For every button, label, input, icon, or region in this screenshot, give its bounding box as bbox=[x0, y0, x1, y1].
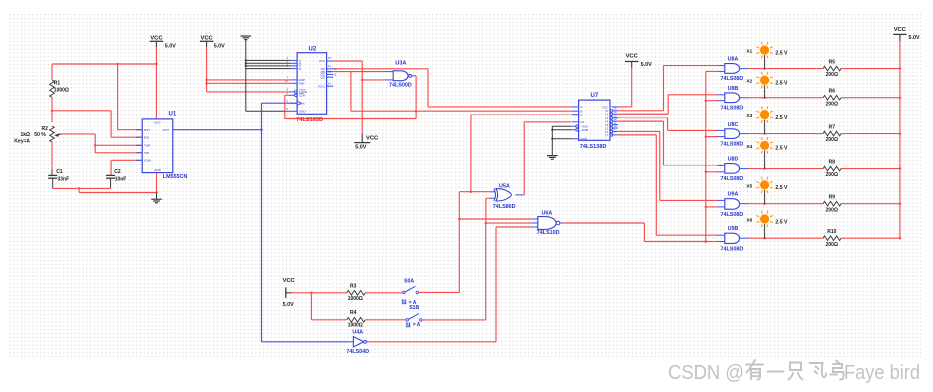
svg-text:X6: X6 bbox=[746, 217, 752, 223]
svg-text:R7: R7 bbox=[829, 125, 836, 131]
svg-text:VCC: VCC bbox=[283, 278, 296, 284]
svg-text:1kΩ: 1kΩ bbox=[21, 132, 31, 138]
svg-text:R9: R9 bbox=[829, 195, 836, 201]
svg-text:R1: R1 bbox=[54, 81, 61, 87]
svg-text:R3: R3 bbox=[350, 284, 357, 290]
svg-text:5.0V: 5.0V bbox=[214, 44, 225, 50]
svg-text:1000Ω: 1000Ω bbox=[348, 323, 363, 329]
svg-text:2.5 V: 2.5 V bbox=[775, 146, 788, 152]
svg-text:X5: X5 bbox=[746, 183, 752, 189]
svg-text:R10: R10 bbox=[827, 229, 836, 235]
svg-text:U9B: U9B bbox=[728, 226, 739, 232]
svg-text:DIS: DIS bbox=[144, 135, 149, 139]
svg-text:R2: R2 bbox=[42, 126, 49, 132]
svg-text:Key=A: Key=A bbox=[14, 138, 30, 144]
svg-text:74LS163D: 74LS163D bbox=[296, 117, 323, 123]
svg-text:200Ω: 200Ω bbox=[826, 242, 838, 248]
svg-text:50 %: 50 % bbox=[34, 132, 46, 138]
svg-text:VCC: VCC bbox=[154, 121, 161, 125]
svg-text:200Ω: 200Ω bbox=[826, 172, 838, 178]
svg-text:OUT: OUT bbox=[163, 128, 170, 132]
svg-text:74LS08D: 74LS08D bbox=[721, 141, 744, 147]
svg-text:74LS08D: 74LS08D bbox=[721, 246, 744, 252]
svg-text:2.5 V: 2.5 V bbox=[775, 50, 788, 56]
svg-text:GND: GND bbox=[154, 168, 162, 172]
svg-text:U8D: U8D bbox=[728, 157, 739, 163]
svg-text:U3A: U3A bbox=[395, 60, 406, 66]
svg-text:74LS00D: 74LS00D bbox=[389, 83, 412, 89]
svg-text:CLR: CLR bbox=[299, 94, 305, 98]
svg-text:QD: QD bbox=[320, 75, 324, 79]
svg-text:U6A: U6A bbox=[542, 211, 553, 217]
svg-text:74LS138D: 74LS138D bbox=[580, 144, 607, 150]
svg-text:C2: C2 bbox=[114, 169, 121, 175]
svg-text:5.0V: 5.0V bbox=[355, 145, 366, 151]
svg-text:5.0V: 5.0V bbox=[909, 35, 920, 41]
svg-text:VCC: VCC bbox=[150, 35, 163, 41]
svg-text:74LS08D: 74LS08D bbox=[721, 176, 744, 182]
svg-text:VCC: VCC bbox=[319, 59, 325, 63]
svg-text:X3: X3 bbox=[746, 113, 752, 119]
svg-text:TRI: TRI bbox=[144, 151, 149, 155]
svg-text:74LS04D: 74LS04D bbox=[346, 349, 369, 355]
svg-text:2.5 V: 2.5 V bbox=[775, 219, 788, 225]
svg-text:GND: GND bbox=[299, 110, 305, 114]
svg-text:ENT: ENT bbox=[299, 82, 305, 86]
svg-text:U8B: U8B bbox=[728, 86, 739, 92]
svg-text:R8: R8 bbox=[829, 160, 836, 166]
svg-text:G1: G1 bbox=[580, 120, 584, 124]
svg-text:74LS08D: 74LS08D bbox=[721, 76, 744, 82]
svg-text:~G2B: ~G2B bbox=[580, 128, 588, 132]
svg-text:74LS86D: 74LS86D bbox=[493, 204, 516, 210]
svg-text:S0A: S0A bbox=[404, 278, 414, 284]
svg-text:Y7: Y7 bbox=[605, 133, 609, 137]
svg-text:74LS08D: 74LS08D bbox=[721, 212, 744, 218]
svg-text:THR: THR bbox=[144, 144, 151, 148]
svg-text:2.5 V: 2.5 V bbox=[775, 115, 788, 121]
svg-text:R4: R4 bbox=[350, 310, 357, 316]
svg-text:10nF: 10nF bbox=[115, 177, 127, 183]
svg-text:5.0V: 5.0V bbox=[641, 62, 652, 68]
svg-text:X1: X1 bbox=[746, 49, 752, 55]
svg-text:200Ω: 200Ω bbox=[826, 137, 838, 143]
svg-text:74LS08D: 74LS08D bbox=[721, 106, 744, 112]
svg-text:2.5 V: 2.5 V bbox=[775, 185, 788, 191]
svg-text:U1: U1 bbox=[169, 111, 177, 117]
svg-text:U8A: U8A bbox=[728, 57, 739, 63]
svg-text:200Ω: 200Ω bbox=[826, 207, 838, 213]
svg-text:1000Ω: 1000Ω bbox=[54, 88, 69, 94]
svg-text:VCC: VCC bbox=[200, 35, 213, 41]
svg-text:74LS10D: 74LS10D bbox=[537, 230, 560, 236]
svg-text:RCO: RCO bbox=[318, 84, 325, 88]
svg-text:5.0V: 5.0V bbox=[165, 44, 176, 50]
svg-text:LM555CN: LM555CN bbox=[163, 174, 188, 180]
svg-text:U2: U2 bbox=[309, 47, 317, 53]
svg-text:= A: = A bbox=[413, 322, 421, 328]
svg-text:U7: U7 bbox=[591, 93, 599, 99]
svg-text:VCC: VCC bbox=[366, 135, 379, 141]
svg-text:U4A: U4A bbox=[352, 329, 363, 335]
svg-text:GND: GND bbox=[580, 137, 586, 141]
svg-text:U5A: U5A bbox=[499, 184, 510, 190]
svg-text:U8C: U8C bbox=[728, 122, 739, 128]
svg-text:C: C bbox=[580, 113, 582, 117]
svg-text:C1: C1 bbox=[56, 169, 63, 175]
svg-text:VCC: VCC bbox=[894, 27, 907, 33]
svg-text:RST: RST bbox=[144, 128, 150, 132]
svg-text:Faye bird: Faye bird bbox=[844, 361, 920, 384]
svg-text:R6: R6 bbox=[829, 89, 836, 95]
svg-text:1000Ω: 1000Ω bbox=[348, 296, 363, 302]
svg-text:= A: = A bbox=[409, 300, 417, 306]
svg-text:CSDN @: CSDN @ bbox=[668, 361, 744, 384]
svg-text:33nF: 33nF bbox=[58, 177, 70, 183]
svg-text:X2: X2 bbox=[746, 79, 752, 85]
svg-text:CON: CON bbox=[144, 159, 151, 163]
svg-text:D: D bbox=[299, 67, 301, 71]
svg-text:200Ω: 200Ω bbox=[826, 101, 838, 107]
svg-text:200Ω: 200Ω bbox=[826, 72, 838, 78]
svg-text:U9A: U9A bbox=[728, 192, 739, 198]
svg-text:CLK: CLK bbox=[299, 101, 305, 105]
svg-text:R5: R5 bbox=[829, 60, 836, 66]
svg-text:5.0V: 5.0V bbox=[283, 302, 294, 308]
svg-text:VCC: VCC bbox=[626, 53, 639, 59]
svg-text:X4: X4 bbox=[746, 144, 752, 150]
svg-text:2.5 V: 2.5 V bbox=[775, 81, 788, 87]
